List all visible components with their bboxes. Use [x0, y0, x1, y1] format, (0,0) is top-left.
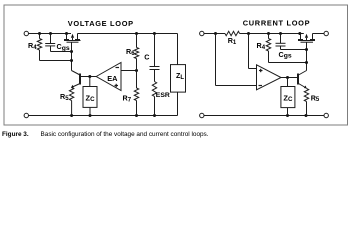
svg-text:EA: EA: [107, 74, 118, 83]
svg-text:C: C: [144, 53, 149, 62]
svg-text:VOLTAGE LOOP: VOLTAGE LOOP: [68, 19, 134, 28]
svg-text:ESR: ESR: [156, 92, 170, 99]
svg-text:CURRENT LOOP: CURRENT LOOP: [243, 18, 311, 27]
